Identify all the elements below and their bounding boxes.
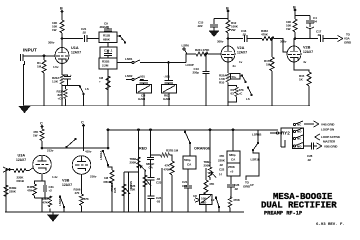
svg-text:250K: 250K	[204, 164, 212, 168]
svg-text:2.2M: 2.2M	[102, 64, 109, 68]
svg-text:.02: .02	[234, 187, 238, 191]
svg-text:1W: 1W	[33, 134, 38, 138]
svg-text:.02: .02	[219, 163, 223, 167]
svg-text:LSR3A: LSR3A	[58, 196, 62, 206]
svg-text:.02: .02	[82, 31, 86, 35]
svg-text:216v: 216v	[90, 175, 97, 179]
svg-text:12AX7: 12AX7	[62, 183, 72, 187]
svg-text:1W: 1W	[286, 27, 291, 31]
svg-text:DUAL RECTIFIER: DUAL RECTIFIER	[261, 201, 337, 211]
svg-text:V2B: V2B	[303, 46, 311, 50]
svg-text:LSR2: LSR2	[125, 74, 133, 78]
svg-text:12AX7: 12AX7	[71, 51, 81, 55]
svg-text:10K: 10K	[130, 188, 136, 192]
svg-text:GRID: GRID	[344, 41, 352, 45]
svg-text:U3A: U3A	[18, 154, 26, 158]
svg-text:250K: 250K	[228, 165, 236, 169]
svg-text:.04: .04	[313, 20, 317, 24]
svg-text:12AX7: 12AX7	[16, 158, 26, 162]
svg-text:C26: C26	[182, 184, 188, 188]
svg-text:47K: 47K	[209, 182, 215, 186]
svg-text:B: B	[60, 7, 63, 11]
svg-text:680p: 680p	[229, 153, 236, 157]
svg-text:-03: -03	[156, 200, 160, 204]
svg-text:L2: L2	[211, 198, 215, 202]
svg-text:2W: 2W	[231, 28, 236, 32]
svg-text:+2: +2	[49, 189, 53, 193]
svg-text:1P: 1P	[250, 183, 254, 187]
svg-text:+C6: +C6	[58, 97, 64, 101]
svg-text:V5B GRID: V5B GRID	[324, 145, 338, 149]
svg-text:R241 470K: R241 470K	[195, 48, 210, 52]
svg-text:50+: 50+	[232, 75, 237, 79]
svg-text:4v: 4v	[303, 60, 307, 64]
svg-text:C25: C25	[113, 187, 117, 193]
svg-text:410v: 410v	[85, 150, 92, 154]
svg-text:NO: NO	[297, 145, 302, 149]
svg-text:300v: 300v	[217, 40, 224, 44]
svg-text:MASTER: MASTER	[323, 140, 336, 144]
svg-text:C30: C30	[104, 49, 110, 53]
svg-text:.022: .022	[197, 24, 203, 28]
svg-text:220K: 220K	[9, 190, 17, 194]
svg-text:R10: R10	[219, 81, 225, 85]
svg-text:R37B 1M: R37B 1M	[166, 149, 179, 153]
svg-text:1M: 1M	[37, 65, 42, 69]
svg-text:47K: 47K	[219, 154, 225, 158]
svg-text:500p: 500p	[184, 158, 191, 162]
svg-text:LOOP ON: LOOP ON	[321, 128, 334, 132]
svg-text:12AX7: 12AX7	[303, 50, 313, 54]
svg-text:47K: 47K	[84, 197, 90, 201]
svg-text:LS: LS	[246, 97, 250, 101]
svg-text:U1A: U1A	[71, 46, 79, 50]
svg-text:LOOP: LOOP	[186, 63, 194, 67]
svg-text:RED: RED	[139, 147, 147, 151]
svg-text:03: 03	[231, 92, 235, 96]
svg-text:1M: 1M	[266, 63, 271, 67]
svg-text:C: C	[40, 122, 43, 126]
svg-text:LS: LS	[85, 87, 89, 91]
svg-text:LOOP ACTIVE: LOOP ACTIVE	[321, 135, 340, 139]
svg-text:2v: 2v	[233, 64, 237, 68]
svg-text:V2A: V2A	[237, 46, 245, 50]
svg-text:220K: 220K	[218, 159, 226, 163]
svg-text:470: 470	[75, 191, 80, 195]
svg-text:1.5v: 1.5v	[53, 65, 59, 69]
svg-text:PREAMP RF-1P: PREAMP RF-1P	[264, 211, 302, 217]
svg-text:1.4v: 1.4v	[52, 175, 58, 179]
svg-text:47K: 47K	[27, 189, 33, 193]
svg-text:R21B: R21B	[17, 179, 25, 183]
svg-text:C: C	[81, 121, 84, 125]
svg-text:C22: C22	[219, 168, 225, 172]
svg-text:470K: 470K	[164, 168, 172, 172]
svg-text:NO: NO	[297, 130, 302, 134]
svg-text:LSR1A: LSR1A	[99, 150, 103, 160]
svg-text:1v: 1v	[239, 60, 243, 64]
svg-text:680K: 680K	[103, 38, 111, 42]
svg-text:.02: .02	[307, 158, 311, 162]
svg-text:V4B GRID: V4B GRID	[321, 123, 335, 127]
svg-text:306v: 306v	[280, 40, 287, 44]
svg-text:1W: 1W	[52, 28, 57, 32]
svg-text:-.001: -.001	[139, 75, 146, 79]
svg-text:6-93 REV. F.: 6-93 REV. F.	[316, 223, 345, 227]
svg-text:47K: 47K	[43, 201, 49, 205]
svg-text:1.5K: 1.5K	[52, 80, 59, 84]
svg-text:C23: C23	[156, 181, 162, 185]
svg-text:213v: 213v	[47, 149, 54, 153]
svg-text:12AX7: 12AX7	[237, 51, 247, 55]
svg-text:470K: 470K	[233, 198, 241, 202]
svg-text:V3B: V3B	[62, 179, 70, 183]
svg-text:250p: 250p	[193, 71, 200, 75]
svg-text:LSR6: LSR6	[182, 44, 190, 48]
svg-text:(-): (-)	[219, 172, 222, 176]
svg-text:LSR1B: LSR1B	[252, 133, 262, 137]
svg-text:+5: +5	[230, 170, 234, 174]
svg-text:-.001: -.001	[164, 75, 171, 79]
svg-text:ORANGE: ORANGE	[194, 147, 211, 151]
svg-text:LSR1: LSR1	[125, 57, 133, 61]
svg-text:250K: 250K	[130, 161, 138, 165]
svg-text:RY2: RY2	[281, 131, 290, 136]
svg-text:.002uF: .002uF	[99, 25, 108, 29]
svg-text:300v: 300v	[48, 41, 55, 45]
svg-text:INPUT: INPUT	[23, 48, 37, 53]
